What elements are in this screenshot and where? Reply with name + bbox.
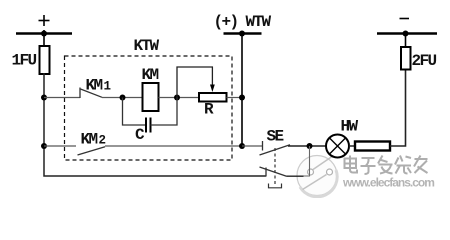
node: left rail row2 [41, 143, 47, 149]
wire: SE pole1 to lamp [288, 145, 326, 147]
relay coil KM [143, 83, 159, 111]
wire: pole2 right link [287, 175, 304, 177]
wire: resistor to right rail [390, 70, 406, 146]
node: bus3 junction [403, 31, 409, 37]
fuse 2FU [401, 47, 411, 70]
wire: to switch SE pole1 [242, 145, 263, 147]
switch SE pole2 [260, 167, 287, 177]
wire: KM1 to coil [102, 97, 143, 99]
wire: to contact KM2 [44, 145, 76, 147]
svg-text:2FU: 2FU [412, 52, 437, 70]
svg-text:R: R [204, 101, 214, 119]
potentiometer R [199, 93, 227, 102]
series resistor [355, 142, 390, 151]
plus label [39, 15, 50, 26]
switch SE pole1 [260, 141, 291, 155]
wire: KM2 to WTW rail [105, 145, 242, 147]
negative bus (top right) [377, 32, 437, 35]
node: WTW rail row2 [239, 143, 245, 149]
wire: R to WTW rail [227, 97, 243, 99]
svg-text:2: 2 [99, 134, 107, 148]
svg-text:WTW: WTW [246, 13, 272, 31]
svg-text:KM: KM [142, 66, 159, 84]
svg-text:KTW: KTW [134, 37, 160, 55]
capacitor C branch left leg [123, 98, 147, 126]
svg-text:C: C [135, 126, 145, 144]
svg-text:www.elecfans.com: www.elecfans.com [342, 176, 434, 190]
wire: lamp to resistor [349, 145, 355, 147]
+ supply bus (top left) [16, 32, 72, 35]
node: WTW bus junction [239, 31, 245, 37]
node: left rail row1 [41, 95, 47, 101]
svg-text:KM: KM [86, 77, 103, 95]
potentiometer bypass wire + wiper arrow [177, 67, 212, 98]
svg-text:KM: KM [81, 131, 98, 149]
svg-text:(+): (+) [214, 13, 238, 31]
node: WTW rail row1 [239, 95, 245, 101]
svg-text:SE: SE [267, 128, 284, 146]
wire: to contact KM1 [44, 97, 80, 99]
contact KM2 [78, 147, 106, 155]
capacitor C branch right leg [151, 98, 178, 126]
watermark logo disc [297, 156, 337, 197]
wire: left rail down + bottom rail [44, 73, 266, 176]
(+) WTW bus [224, 32, 262, 35]
capacitor C plates [145, 118, 147, 133]
wire: bus to fuse 1FU [43, 30, 45, 47]
wire: bus to fuse 2FU [405, 34, 407, 49]
node: coil right / bypass [174, 95, 180, 101]
wire: coil to R [159, 97, 200, 99]
minus label [400, 18, 410, 20]
lamp HW [326, 135, 349, 158]
contact KM1 [80, 88, 102, 99]
KTW enclosure (dashed) [65, 56, 233, 160]
node: bus1 junction [41, 31, 47, 37]
node: capacitor branch left [120, 95, 126, 101]
fuse 1FU [40, 46, 50, 74]
svg-text:1: 1 [104, 80, 112, 94]
SE linkage (dashed) [274, 148, 276, 184]
svg-text:1FU: 1FU [12, 52, 37, 70]
watermark chinese text 电子发烧友 (approximated strokes) [345, 156, 428, 175]
svg-text:HW: HW [341, 118, 359, 136]
wire: WTW rail [241, 34, 243, 147]
node: pole2 tie point [307, 143, 313, 149]
SE handle bracket [269, 184, 282, 188]
